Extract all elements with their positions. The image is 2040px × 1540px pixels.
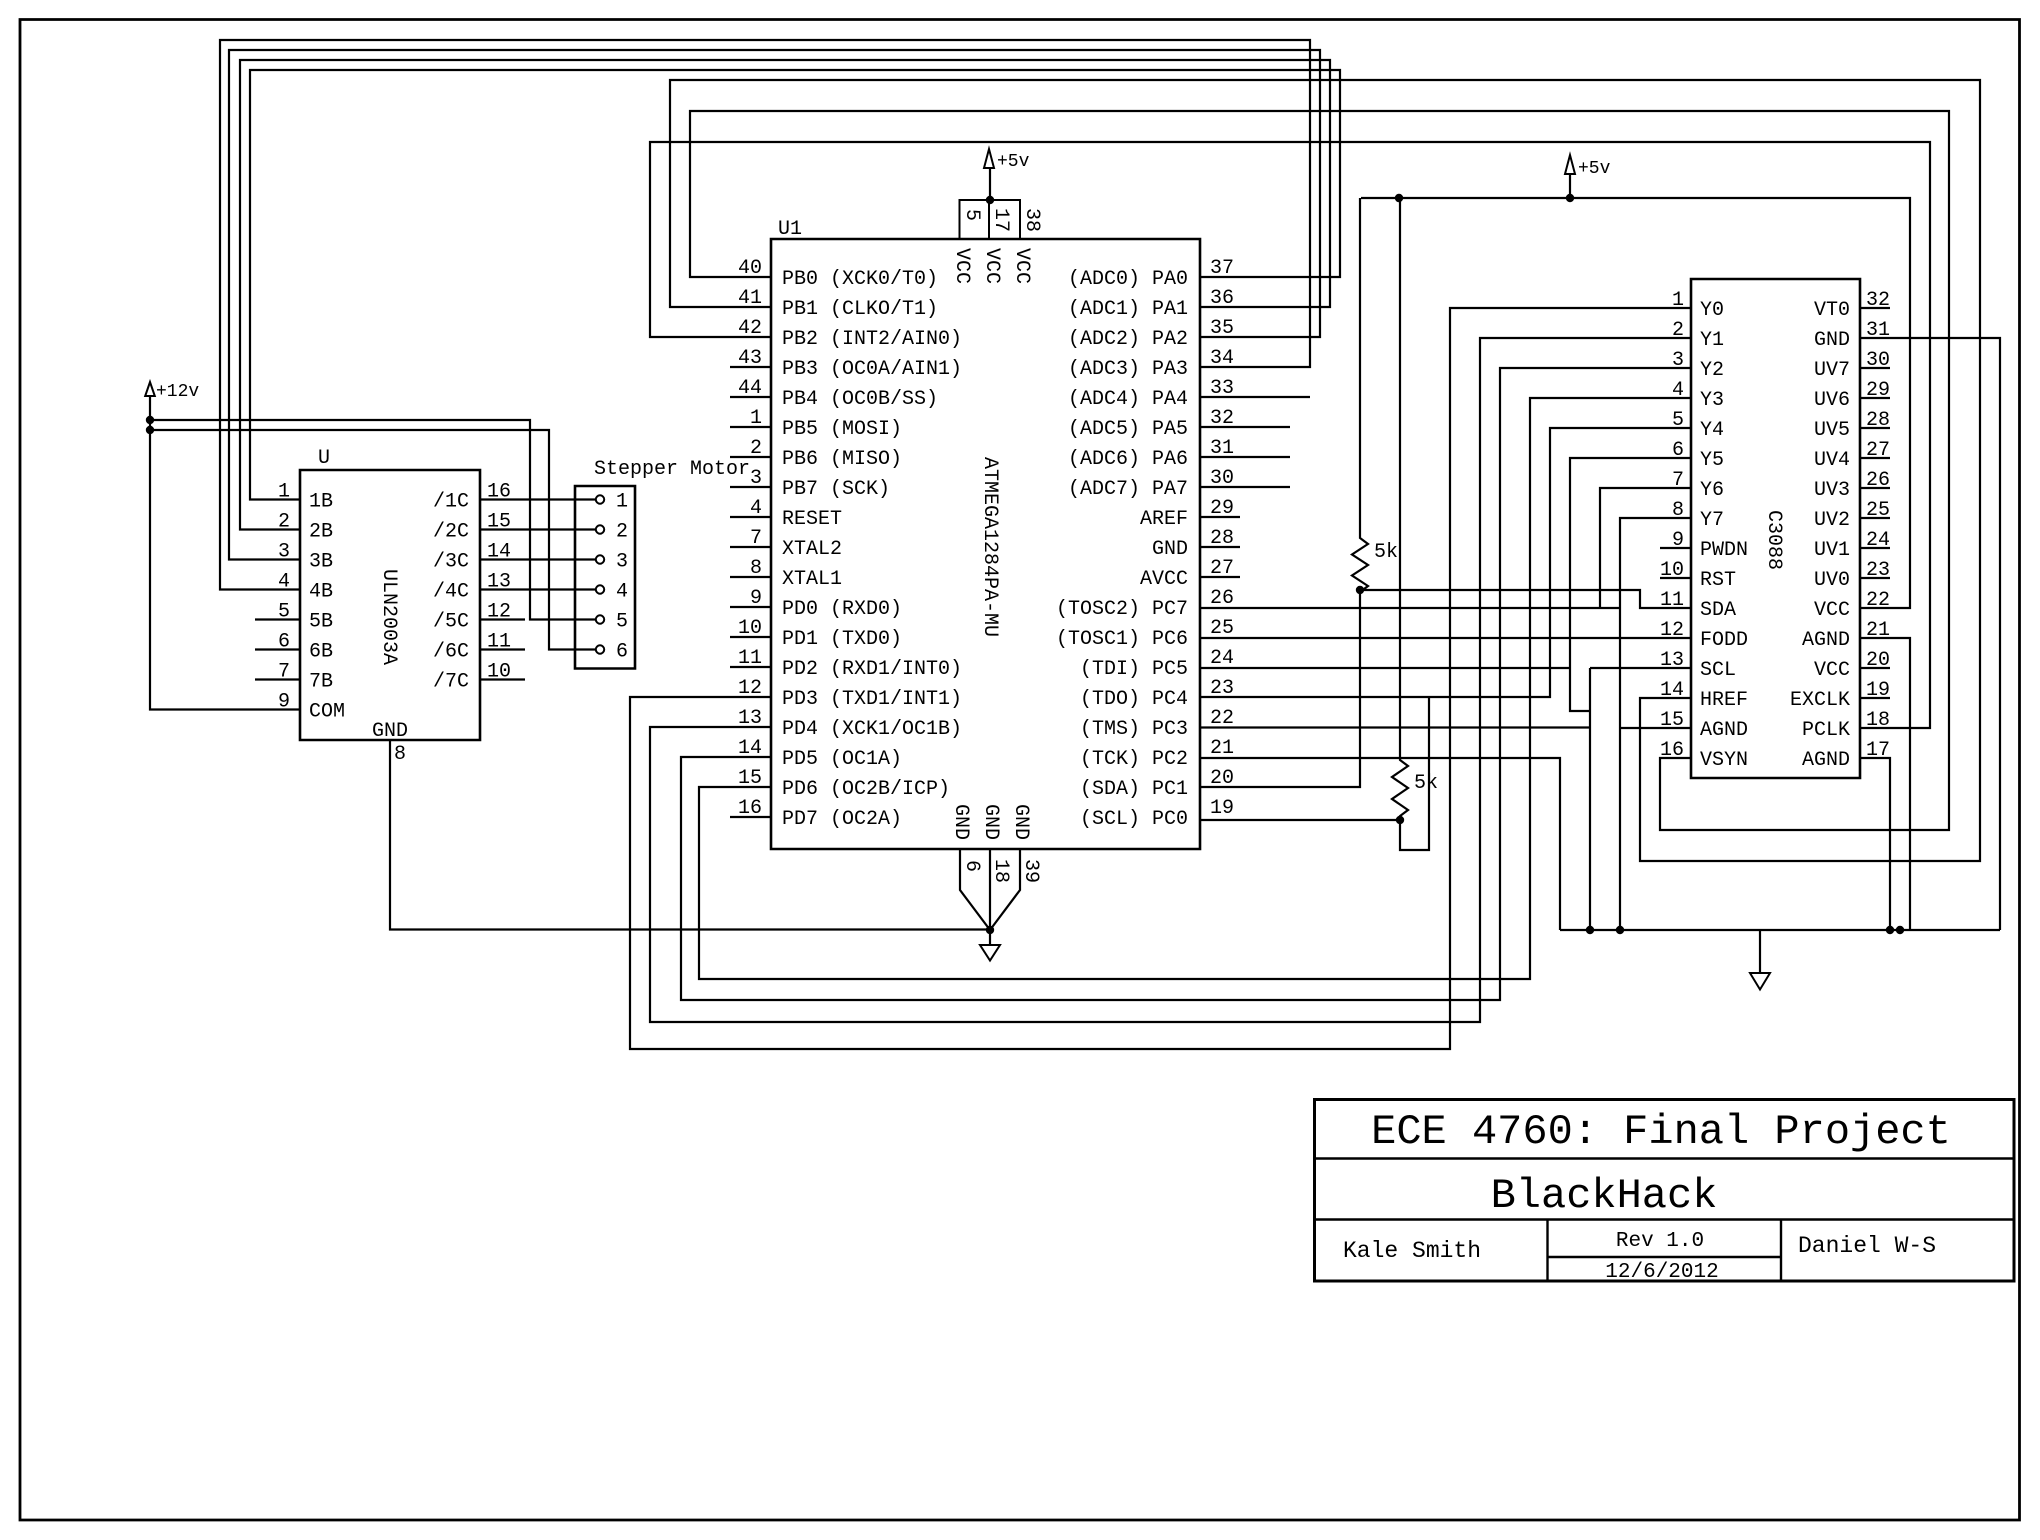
IC U ULN2003A body: [300, 470, 480, 740]
svg-text:PD6 (OC2B/ICP): PD6 (OC2B/ICP): [782, 778, 950, 801]
svg-text:5: 5: [616, 611, 628, 634]
wire net PA0-1B: [250, 70, 1340, 500]
svg-text:4B: 4B: [309, 581, 333, 604]
svg-text:1B: 1B: [309, 491, 333, 514]
wire +12v vertical to COM: [150, 396, 300, 710]
pin stub U1 left: [730, 366, 771, 368]
svg-text:4: 4: [1672, 379, 1684, 402]
wire pin Y5: [1570, 458, 1691, 711]
svg-text:35: 35: [1210, 317, 1234, 340]
svg-text:(ADC6) PA6: (ADC6) PA6: [1068, 448, 1188, 471]
wire net PC3: [1200, 726, 1590, 728]
svg-text:34: 34: [1210, 347, 1234, 370]
pin stub U1 left: [730, 816, 771, 818]
pin stub C3088 right: [1860, 397, 1890, 399]
pin stub U1 left: [730, 396, 771, 398]
pin 4 stepper circle: [596, 585, 604, 593]
pin stub C3088 right: [1860, 367, 1890, 369]
pin stub U1 right: [1200, 456, 1290, 458]
wire pin Y6: [1600, 488, 1691, 608]
svg-text:Y4: Y4: [1700, 419, 1724, 442]
svg-text:Y3: Y3: [1700, 389, 1724, 412]
wire ULN output to stepper: [480, 558, 596, 560]
svg-text:5: 5: [1672, 409, 1684, 432]
svg-text:UV5: UV5: [1814, 419, 1850, 442]
svg-text:18: 18: [1866, 709, 1890, 732]
svg-text:25: 25: [1210, 617, 1234, 640]
svg-text:21: 21: [1210, 737, 1234, 760]
svg-text:Y0: Y0: [1700, 299, 1724, 322]
svg-text:XTAL2: XTAL2: [782, 538, 842, 561]
svg-text:(TOSC1) PC6: (TOSC1) PC6: [1056, 628, 1188, 651]
wire net PB1-HREF: [670, 80, 1980, 861]
svg-text:PB7 (SCK): PB7 (SCK): [782, 478, 890, 501]
svg-text:ECE 4760: Final Project: ECE 4760: Final Project: [1371, 1108, 1951, 1156]
svg-text:(TOSC2) PC7: (TOSC2) PC7: [1056, 598, 1188, 621]
svg-text:38: 38: [1020, 208, 1043, 232]
pin stub C3088 right: [1860, 547, 1890, 549]
svg-text:PCLK: PCLK: [1802, 719, 1850, 742]
svg-text:UV6: UV6: [1814, 389, 1850, 412]
svg-text:14: 14: [1660, 679, 1684, 702]
pin stub U1 left: [730, 516, 771, 518]
wire +5v rail: [1361, 198, 1910, 608]
wire ULN output to stepper: [480, 528, 596, 530]
svg-text:/4C: /4C: [433, 581, 469, 604]
pin stub C3088 right: [1860, 667, 1890, 669]
svg-text:11: 11: [1660, 589, 1684, 612]
svg-text:RESET: RESET: [782, 508, 842, 531]
svg-text:UV2: UV2: [1814, 509, 1850, 532]
svg-text:COM: COM: [309, 701, 345, 724]
wire +12v to stepper pin6: [150, 430, 596, 650]
svg-text:Stepper Motor: Stepper Motor: [594, 458, 750, 481]
svg-text:39: 39: [1019, 859, 1042, 883]
svg-text:6B: 6B: [309, 641, 333, 664]
svg-text:(SDA) PC1: (SDA) PC1: [1080, 778, 1188, 801]
svg-text:+5v: +5v: [1578, 159, 1611, 179]
node +5v rail junction B: [1566, 194, 1574, 202]
node rail junction AGND21: [1896, 926, 1904, 934]
svg-text:3: 3: [616, 551, 628, 574]
pin stub U1 left: [730, 666, 771, 668]
svg-text:15: 15: [1660, 709, 1684, 732]
svg-text:7B: 7B: [309, 671, 333, 694]
svg-text:26: 26: [1210, 587, 1234, 610]
wire net PC5 to Y5: [1200, 667, 1570, 669]
pin stub ULN 7B: [255, 678, 300, 680]
svg-text:Y6: Y6: [1700, 479, 1724, 502]
svg-text:VCC: VCC: [1010, 248, 1033, 284]
svg-text:GND: GND: [949, 804, 972, 840]
node rail junction AGND17: [1886, 926, 1894, 934]
pin stub U1 right: [1200, 426, 1290, 428]
svg-text:6: 6: [1672, 439, 1684, 462]
pin stub C3088 right: [1860, 427, 1890, 429]
svg-text:C3088: C3088: [1762, 510, 1785, 570]
svg-text:VCC: VCC: [1814, 599, 1850, 622]
svg-text:(TCK) PC2: (TCK) PC2: [1080, 748, 1188, 771]
svg-text:16: 16: [1660, 739, 1684, 762]
wire net PB0-VSYN: [690, 111, 1949, 830]
wire pin AGND15: [1620, 727, 1691, 729]
svg-text:(ADC2) PA2: (ADC2) PA2: [1068, 328, 1188, 351]
svg-text:UV4: UV4: [1814, 449, 1850, 472]
wire net PB2-PCLK: [650, 142, 1930, 728]
wire ULN output to stepper: [480, 498, 596, 500]
wire net PC0: [1200, 819, 1400, 821]
svg-text:/7C: /7C: [433, 671, 469, 694]
pin stub U1 left: [730, 636, 771, 638]
pin stub C3088 right: [1860, 457, 1890, 459]
svg-text:PB2 (INT2/AIN0): PB2 (INT2/AIN0): [782, 328, 962, 351]
pin stub C3088 right: [1860, 697, 1890, 699]
svg-text:/1C: /1C: [433, 491, 469, 514]
svg-text:6: 6: [616, 641, 628, 664]
svg-text:GND: GND: [1152, 538, 1188, 561]
svg-text:PD7 (OC2A): PD7 (OC2A): [782, 808, 902, 831]
svg-text:U: U: [318, 447, 330, 470]
svg-text:PD4 (XCK1/OC1B): PD4 (XCK1/OC1B): [782, 718, 962, 741]
pin stub C3088 right: [1860, 307, 1890, 309]
svg-text:Daniel W-S: Daniel W-S: [1798, 1233, 1936, 1259]
pin stub PWDN: [1660, 547, 1691, 549]
svg-text:2: 2: [1672, 319, 1684, 342]
svg-text:5k: 5k: [1374, 541, 1398, 564]
svg-text:PD3 (TXD1/INT1): PD3 (TXD1/INT1): [782, 688, 962, 711]
IC C3088 body: [1691, 279, 1860, 778]
svg-text:PB3 (OC0A/AIN1): PB3 (OC0A/AIN1): [782, 358, 962, 381]
pin stub ULN 5B: [255, 618, 300, 620]
connector Stepper Motor body: [575, 486, 635, 669]
pin stub U1 right: [1200, 546, 1240, 548]
IC U1 ATMEGA1284PA-MU body: [771, 239, 1200, 849]
svg-text:19: 19: [1210, 797, 1234, 820]
svg-text:PD2 (RXD1/INT0): PD2 (RXD1/INT0): [782, 658, 962, 681]
svg-text:Y1: Y1: [1700, 329, 1724, 352]
svg-text:3B: 3B: [309, 551, 333, 574]
svg-text:5B: 5B: [309, 611, 333, 634]
wire net PC2 to rail: [1200, 758, 1560, 930]
wire +5v to VCC pins: [989, 168, 991, 200]
svg-text:AREF: AREF: [1140, 508, 1188, 531]
title block rev divider: [1548, 1256, 1782, 1258]
svg-text:UV7: UV7: [1814, 359, 1850, 382]
svg-text:EXCLK: EXCLK: [1790, 689, 1850, 712]
title block frame: [1315, 1100, 2015, 1282]
svg-text:1: 1: [1672, 289, 1684, 312]
svg-text:PB4 (OC0B/SS): PB4 (OC0B/SS): [782, 388, 938, 411]
svg-text:+12v: +12v: [156, 382, 199, 402]
node PC0-R2 junction: [1396, 816, 1404, 824]
node rail junction Y7: [1616, 926, 1624, 934]
power +5v symbol U1: [984, 149, 994, 168]
svg-text:SCL: SCL: [1700, 659, 1736, 682]
svg-text:VCC: VCC: [980, 248, 1003, 284]
svg-text:1: 1: [616, 491, 628, 514]
svg-text:(ADC3) PA3: (ADC3) PA3: [1068, 358, 1188, 381]
svg-text:PB0 (XCK0/T0): PB0 (XCK0/T0): [782, 268, 938, 291]
svg-text:(TDI) PC5: (TDI) PC5: [1080, 658, 1188, 681]
wire net PD6-Y3: [699, 398, 1691, 979]
pin 18 GND lead: [989, 849, 991, 930]
wire net PA1-2B: [240, 60, 1330, 530]
svg-text:7: 7: [1672, 469, 1684, 492]
svg-text:AVCC: AVCC: [1140, 568, 1188, 591]
svg-text:PD1 (TXD0): PD1 (TXD0): [782, 628, 902, 651]
pin 5 stepper circle: [596, 615, 604, 623]
svg-text:+5v: +5v: [997, 152, 1030, 172]
wire ULN output to stepper: [480, 588, 596, 590]
pin stub U1 left: [730, 486, 771, 488]
node GND junction U1: [986, 926, 994, 934]
svg-text:XTAL1: XTAL1: [782, 568, 842, 591]
wire net PC7: [1200, 607, 1620, 609]
pin stub ULN /6C: [480, 648, 525, 650]
svg-text:RST: RST: [1700, 569, 1736, 592]
svg-text:6: 6: [960, 860, 983, 872]
svg-text:2B: 2B: [309, 521, 333, 544]
pin 5 VCC box: [960, 200, 990, 239]
svg-text:18: 18: [989, 859, 1012, 883]
svg-text:BlackHack: BlackHack: [1491, 1172, 1718, 1220]
svg-text:Y5: Y5: [1700, 449, 1724, 472]
wire net AGND21: [1860, 638, 1910, 930]
svg-text:(SCL) PC0: (SCL) PC0: [1080, 808, 1188, 831]
wire ground rail right: [1560, 929, 2000, 931]
svg-text:9: 9: [278, 691, 290, 714]
svg-text:3: 3: [1672, 349, 1684, 372]
svg-text:Rev 1.0: Rev 1.0: [1616, 1230, 1704, 1253]
resistor R1 5k: [1352, 198, 1368, 592]
pin 6 stepper circle: [596, 645, 604, 653]
svg-text:FODD: FODD: [1700, 629, 1748, 652]
power +12v symbol: [145, 382, 155, 396]
node +12v junction B: [146, 426, 154, 434]
pin 2 stepper circle: [596, 525, 604, 533]
title block column A: [1546, 1220, 1548, 1282]
pin stub U1 right: [1200, 396, 1310, 398]
wire net AGND17: [1860, 758, 1890, 930]
title block divider 1: [1315, 1157, 2015, 1159]
title block column B: [1780, 1220, 1782, 1282]
svg-text:Y2: Y2: [1700, 359, 1724, 382]
svg-text:PD5 (OC1A): PD5 (OC1A): [782, 748, 902, 771]
wire net GND31: [1860, 338, 2000, 930]
svg-text:GND: GND: [979, 804, 1002, 840]
svg-text:(TDO) PC4: (TDO) PC4: [1080, 688, 1188, 711]
pin stub U1 left: [730, 456, 771, 458]
pin stub U1 right: [1200, 486, 1290, 488]
svg-text:GND: GND: [372, 720, 408, 743]
svg-text:5: 5: [960, 209, 983, 221]
svg-text:PD0 (RXD0): PD0 (RXD0): [782, 598, 902, 621]
node +5v rail junction A: [1395, 194, 1403, 202]
wire branch PC4 to PC0: [1400, 697, 1429, 850]
svg-text:PWDN: PWDN: [1700, 539, 1748, 562]
pin stub C3088 right: [1860, 517, 1890, 519]
svg-text:4: 4: [616, 581, 628, 604]
svg-text:PB5 (MOSI): PB5 (MOSI): [782, 418, 902, 441]
pin stub U1 left: [730, 576, 771, 578]
svg-text:AGND: AGND: [1700, 719, 1748, 742]
svg-text:ULN2003A: ULN2003A: [377, 569, 400, 665]
svg-text:37: 37: [1210, 257, 1234, 280]
wire net PC6-FODD: [1200, 637, 1691, 639]
wire net PC1 to R1: [1200, 590, 1360, 787]
pin stub U1 left: [730, 426, 771, 428]
pin 39 GND lead: [990, 849, 1020, 930]
svg-text:UV3: UV3: [1814, 479, 1850, 502]
wire net PD4-Y1: [650, 338, 1691, 1022]
svg-text:VCC: VCC: [950, 248, 973, 284]
wire net PA2-3B: [229, 50, 1320, 560]
svg-text:2: 2: [616, 521, 628, 544]
svg-text:ATMEGA1284PA-MU: ATMEGA1284PA-MU: [978, 457, 1001, 637]
svg-text:Kale Smith: Kale Smith: [1343, 1238, 1481, 1264]
svg-text:AGND: AGND: [1802, 749, 1850, 772]
svg-text:(ADC4) PA4: (ADC4) PA4: [1068, 388, 1188, 411]
pin stub U1 left: [730, 606, 771, 608]
svg-text:UV1: UV1: [1814, 539, 1850, 562]
wire net PA3-4B: [220, 40, 1310, 590]
pin stub ULN /7C: [480, 678, 525, 680]
svg-text:UV0: UV0: [1814, 569, 1850, 592]
pin stub U1 right: [1200, 516, 1240, 518]
svg-text:U1: U1: [778, 218, 802, 241]
pin stub C3088 right: [1860, 487, 1890, 489]
wire net PD5-Y2: [681, 368, 1691, 1000]
svg-text:PB6 (MISO): PB6 (MISO): [782, 448, 902, 471]
svg-text:AGND: AGND: [1802, 629, 1850, 652]
ground symbol right: [1759, 930, 1761, 973]
wire net PC4-Y4: [1200, 428, 1691, 697]
svg-text:17: 17: [989, 208, 1012, 232]
svg-text:24: 24: [1210, 647, 1234, 670]
svg-text:Y7: Y7: [1700, 509, 1724, 532]
wire pin SCL to ground: [1590, 668, 1691, 930]
node +12v junction A: [146, 416, 154, 424]
pin stub U1 left: [730, 546, 771, 548]
svg-text:(ADC7) PA7: (ADC7) PA7: [1068, 478, 1188, 501]
svg-text:12/6/2012: 12/6/2012: [1605, 1261, 1718, 1284]
resistor R2 5k: [1392, 198, 1408, 820]
wire +12v to stepper pin5: [150, 420, 596, 620]
svg-text:(ADC5) PA5: (ADC5) PA5: [1068, 418, 1188, 441]
pin 17 VCC box: [989, 200, 1020, 239]
ground symbol U1: [989, 930, 991, 945]
svg-text:12: 12: [1660, 619, 1684, 642]
svg-text:VSYN: VSYN: [1700, 749, 1748, 772]
node rail junction AGND15: [1586, 926, 1594, 934]
pin stub C3088 right: [1860, 577, 1890, 579]
pin stub RST: [1660, 577, 1691, 579]
title block divider 2: [1315, 1218, 2015, 1220]
pin 3 stepper circle: [596, 555, 604, 563]
wire ULN GND to ground rail: [390, 740, 990, 930]
svg-text:GND: GND: [1009, 804, 1032, 840]
svg-text:PB1 (CLKO/T1): PB1 (CLKO/T1): [782, 298, 938, 321]
wire net R1-SDA jog: [1360, 590, 1691, 608]
svg-text:VCC: VCC: [1814, 659, 1850, 682]
power +5v symbol right: [1565, 155, 1575, 174]
pin 6 GND lead: [960, 849, 990, 930]
svg-text:36: 36: [1210, 287, 1234, 310]
svg-text:(ADC0) PA0: (ADC0) PA0: [1068, 268, 1188, 291]
svg-text:8: 8: [1672, 499, 1684, 522]
pin stub ULN 6B: [255, 648, 300, 650]
svg-text:(TMS) PC3: (TMS) PC3: [1080, 718, 1188, 741]
svg-text:/3C: /3C: [433, 551, 469, 574]
node VCC junction: [986, 196, 994, 204]
pin stub U1 right: [1200, 576, 1240, 578]
wire +5v stem: [1569, 175, 1571, 198]
svg-text:/6C: /6C: [433, 641, 469, 664]
svg-text:HREF: HREF: [1700, 689, 1748, 712]
svg-text:22: 22: [1866, 589, 1890, 612]
pin 1 stepper circle: [596, 495, 604, 503]
svg-text:VT0: VT0: [1814, 299, 1850, 322]
svg-text:(ADC1) PA1: (ADC1) PA1: [1068, 298, 1188, 321]
svg-text:SDA: SDA: [1700, 599, 1736, 622]
svg-text:8: 8: [394, 743, 406, 766]
svg-text:GND: GND: [1814, 329, 1850, 352]
svg-text:13: 13: [1660, 649, 1684, 672]
svg-text:/2C: /2C: [433, 521, 469, 544]
node R1 junction: [1356, 586, 1364, 594]
wire net Y7 to ground: [1620, 518, 1691, 930]
svg-text:5k: 5k: [1414, 772, 1438, 795]
pin stub ULN /5C: [480, 618, 525, 620]
wire net PD3-Y0: [630, 308, 1691, 1049]
svg-text:/5C: /5C: [433, 611, 469, 634]
